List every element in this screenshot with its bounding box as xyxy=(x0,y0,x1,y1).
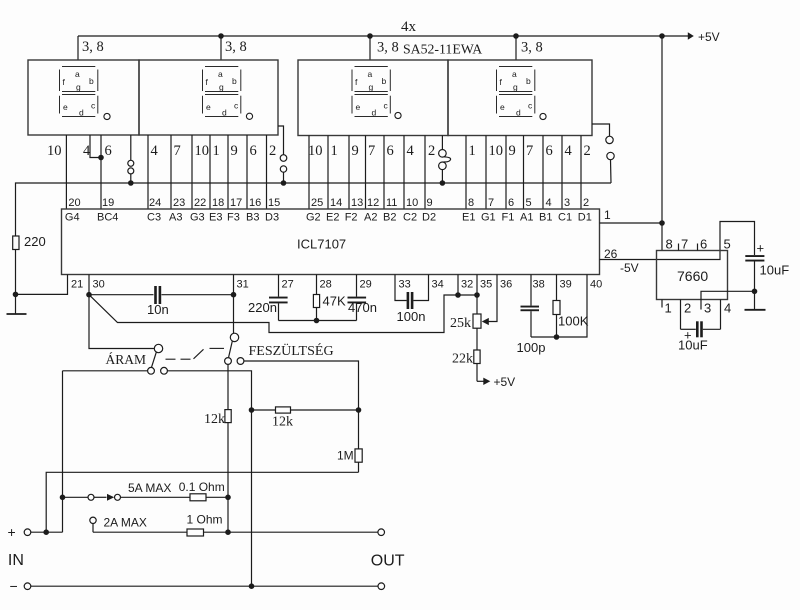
display pin labels serif xyxy=(47,143,591,159)
wire IC pin35 stub xyxy=(476,275,478,296)
svg-text:ÁRAM: ÁRAM xyxy=(106,352,147,367)
wire DIS4 pin1 to IC pin8 xyxy=(465,136,467,210)
svg-text:5: 5 xyxy=(724,237,731,252)
wire 2A row xyxy=(93,531,187,533)
svg-text:B1: B1 xyxy=(539,212,552,224)
svg-text:2: 2 xyxy=(269,143,276,159)
wire +5V top rail xyxy=(78,35,689,37)
wire sense line to input xyxy=(46,472,358,532)
wire drop to display DIS3 pins 3,8 xyxy=(369,36,371,60)
svg-text:0.1 Ohm: 0.1 Ohm xyxy=(179,480,225,494)
node oscillator tie xyxy=(554,334,560,340)
svg-text:+: + xyxy=(684,328,692,343)
svg-text:470n: 470n xyxy=(348,300,377,315)
wire IC pin31 down to switch pole xyxy=(233,275,235,334)
ground GND1 xyxy=(7,313,27,315)
wire integrator common tie xyxy=(279,320,357,322)
svg-text:10uF: 10uF xyxy=(760,263,790,278)
pin tick U2 pin6 xyxy=(697,244,699,251)
switch SW1a ARAM pole xyxy=(154,344,162,352)
svg-text:8: 8 xyxy=(468,197,474,209)
node top-rail junction box4 xyxy=(513,33,519,39)
wire DIS4 pin6 to IC pin4 xyxy=(542,136,544,210)
IC pin number labels bottom row xyxy=(71,279,602,291)
svg-text:6: 6 xyxy=(546,143,553,159)
svg-text:7: 7 xyxy=(174,143,181,159)
wire U2 pin3 to ground node xyxy=(701,291,755,309)
svg-text:7: 7 xyxy=(681,237,688,252)
svg-text:40: 40 xyxy=(590,279,602,291)
jumper J4 decimal point of DIS4 xyxy=(592,124,614,183)
svg-text:4: 4 xyxy=(407,143,415,159)
wire DIS3 pin1 to IC pin14 xyxy=(327,136,329,210)
node pin31 xyxy=(231,292,237,298)
contact SW1a right xyxy=(161,367,168,374)
7660 labels xyxy=(665,237,732,316)
node -5V filter xyxy=(752,289,758,295)
display DIS4 7-segment glyph xyxy=(497,67,547,120)
node pin1 +5V xyxy=(659,220,665,226)
svg-text:1: 1 xyxy=(604,208,611,222)
svg-text:23: 23 xyxy=(173,197,185,209)
node bottom rail xyxy=(249,583,255,589)
resistor R3 22k xyxy=(474,350,484,381)
wire DIS3 pin6 to IC pin11 xyxy=(383,136,385,210)
svg-text:OUT: OUT xyxy=(371,553,405,570)
svg-text:29: 29 xyxy=(360,279,372,291)
svg-text:36: 36 xyxy=(500,279,512,291)
wire 5A jack to plug xyxy=(94,496,107,498)
+5V arrow at 22k xyxy=(483,378,490,385)
wiper arrow of P1 xyxy=(482,318,489,325)
svg-text:27: 27 xyxy=(282,279,294,291)
wire IC pin27 stub xyxy=(278,275,280,297)
ground GND2 xyxy=(745,309,766,311)
svg-text:E1: E1 xyxy=(462,212,475,224)
svg-text:A3: A3 xyxy=(169,212,182,224)
wire ARAM left contact to input sense xyxy=(63,370,148,372)
pin tick U2 pin7 xyxy=(678,244,680,251)
wire DIS4 pin10 to IC pin7 xyxy=(485,136,487,210)
svg-text:5: 5 xyxy=(526,197,532,209)
node pin30 xyxy=(86,292,92,298)
IC pin number labels top row xyxy=(68,197,589,209)
wire 2A jack drop xyxy=(92,524,94,533)
terminal OUT+ xyxy=(378,529,385,536)
svg-text:26: 26 xyxy=(604,247,618,261)
svg-text:9: 9 xyxy=(509,143,516,159)
svg-text:B2: B2 xyxy=(383,212,396,224)
jack 2A xyxy=(90,517,96,523)
svg-text:4: 4 xyxy=(546,197,552,209)
display DIS3 box xyxy=(298,60,448,136)
svg-text:3, 8: 3, 8 xyxy=(225,39,247,55)
node DIS1 pins 4-6 xyxy=(98,155,104,161)
display DIS1 7-segment glyph xyxy=(60,67,111,120)
wire IC pin36 to wiper arrow xyxy=(489,275,498,322)
svg-text:7660: 7660 xyxy=(677,268,708,284)
svg-text:C3: C3 xyxy=(147,212,161,224)
svg-text:BC4: BC4 xyxy=(97,212,118,224)
node DP line J1 xyxy=(128,180,134,186)
node top-rail junction box2 xyxy=(218,33,224,39)
wire IC pin29 stub xyxy=(356,275,358,297)
contact SW1a left xyxy=(148,367,155,374)
node DP line J3 xyxy=(440,180,446,186)
node pin32 xyxy=(455,292,461,298)
wire IC pin38 stub xyxy=(530,275,532,306)
svg-text:33: 33 xyxy=(399,279,411,291)
wire input sense vertical xyxy=(62,371,64,532)
svg-text:11: 11 xyxy=(386,197,397,209)
svg-text:E2: E2 xyxy=(326,212,339,224)
node shunt junction 5A xyxy=(225,495,231,501)
wire IC pin40 down and oscillator tie xyxy=(531,275,587,338)
svg-text:6: 6 xyxy=(250,143,257,159)
svg-text:14: 14 xyxy=(330,197,342,209)
svg-text:3, 8: 3, 8 xyxy=(521,40,543,56)
svg-text:9: 9 xyxy=(427,197,433,209)
wire DIS4 pin9 to IC pin6 xyxy=(505,136,507,210)
svg-text:1: 1 xyxy=(469,143,476,159)
svg-text:7: 7 xyxy=(368,143,375,159)
svg-text:6: 6 xyxy=(700,237,707,252)
svg-text:7: 7 xyxy=(526,143,533,159)
capacitor C6 10uF charge pump xyxy=(681,321,721,337)
wire 220 to ground xyxy=(15,250,17,315)
wire DIS1 pin6 to IC pin19 xyxy=(100,135,102,209)
wire DIS4 pin2 to IC pin2 xyxy=(580,136,582,210)
svg-text:10: 10 xyxy=(195,143,210,159)
svg-text:19: 19 xyxy=(102,197,114,209)
wire DIS4 pin4 to IC pin3 xyxy=(561,136,563,210)
wire FESZ left contact to 12k xyxy=(227,364,229,409)
svg-text:1 Ohm: 1 Ohm xyxy=(187,513,223,527)
resistor R5 12k vertical xyxy=(225,410,231,533)
jack 5A right xyxy=(115,494,121,500)
wire DIS2 pin7 to IC pin23 xyxy=(170,135,172,209)
wire IC pin32 stub xyxy=(457,275,459,296)
display DIS2 box xyxy=(139,60,278,135)
svg-text:+: + xyxy=(8,524,16,540)
svg-text:3, 8: 3, 8 xyxy=(82,39,104,55)
svg-text:10: 10 xyxy=(47,143,62,159)
svg-text:G2: G2 xyxy=(306,212,321,224)
svg-text:1: 1 xyxy=(331,143,338,159)
svg-text:ICL7107: ICL7107 xyxy=(297,237,346,252)
jack 5A left xyxy=(88,494,94,500)
plug arrow 5A xyxy=(107,494,114,501)
node ground junction xyxy=(13,292,19,298)
pin tick U2 pin1 xyxy=(661,300,663,308)
wire bottom rail xyxy=(31,585,378,587)
svg-text:16: 16 xyxy=(249,197,261,209)
svg-text:100n: 100n xyxy=(397,309,426,324)
svg-text:31: 31 xyxy=(237,279,249,291)
svg-text:15: 15 xyxy=(268,197,280,209)
node IN+ branch xyxy=(43,529,49,535)
svg-text:35: 35 xyxy=(480,279,492,291)
display 3,8 labels xyxy=(82,19,543,57)
svg-text:C2: C2 xyxy=(403,212,417,224)
wire drop to display DIS1 pins 3,8 xyxy=(77,36,79,60)
svg-text:2: 2 xyxy=(584,143,591,159)
node 1M top xyxy=(356,407,362,413)
svg-text:9: 9 xyxy=(231,143,238,159)
svg-text:25: 25 xyxy=(311,197,323,209)
resistor R8 0.1 Ohm shunt xyxy=(190,494,228,501)
svg-text:1: 1 xyxy=(665,301,672,316)
svg-text:F3: F3 xyxy=(227,212,240,224)
svg-text:34: 34 xyxy=(432,279,444,291)
display DIS4 box xyxy=(448,60,592,136)
svg-text:4: 4 xyxy=(151,143,159,159)
svg-text:20: 20 xyxy=(68,197,80,209)
wire 5A row xyxy=(63,496,89,498)
wire DIS1 pin4 join xyxy=(90,135,101,158)
capacitor C1 10n xyxy=(89,286,234,304)
wire ARAM right contact to divider xyxy=(167,371,251,586)
jumper J3 decimal point of DIS3 xyxy=(439,136,451,184)
svg-text:8: 8 xyxy=(666,237,673,252)
svg-text:4: 4 xyxy=(83,143,91,159)
svg-text:+5V: +5V xyxy=(494,375,516,389)
svg-text:2: 2 xyxy=(583,197,589,209)
svg-text:3: 3 xyxy=(704,301,711,316)
svg-text:21: 21 xyxy=(71,279,83,291)
svg-text:22: 22 xyxy=(194,197,206,209)
wire DIS3 pin2 to IC pin9 xyxy=(424,136,426,210)
wire DIS3 pin9 to IC pin13 xyxy=(348,136,350,210)
svg-text:SA52-11EWA: SA52-11EWA xyxy=(403,42,482,57)
wire IC pin39 stub xyxy=(556,275,558,301)
svg-text:39: 39 xyxy=(560,279,572,291)
svg-text:4x: 4x xyxy=(401,19,417,35)
svg-text:D1: D1 xyxy=(578,212,592,224)
svg-text:100p: 100p xyxy=(517,340,546,355)
svg-text:28: 28 xyxy=(320,279,332,291)
wire drop to display DIS4 pins 3,8 xyxy=(515,36,517,60)
svg-text:17: 17 xyxy=(230,197,242,209)
IC segment name labels xyxy=(65,212,592,224)
svg-text:220: 220 xyxy=(24,234,46,249)
wire +5V branch down to 7660 pin 8 xyxy=(661,36,663,251)
wire DIS2 pin4 to IC pin24 xyxy=(147,135,149,209)
svg-text:F1: F1 xyxy=(502,212,515,224)
wire IC pin21 to ground node xyxy=(16,275,68,295)
node top-rail junction box3 xyxy=(367,33,373,39)
svg-text:100K: 100K xyxy=(558,314,589,329)
svg-text:10: 10 xyxy=(489,143,504,159)
svg-text:E3: E3 xyxy=(209,212,222,224)
svg-text:1: 1 xyxy=(213,143,220,159)
svg-text:13: 13 xyxy=(351,197,363,209)
resistor R4 100K xyxy=(553,301,560,338)
potentiometer P1 25k xyxy=(473,295,481,350)
wire decimal-point common line xyxy=(16,183,612,236)
linkage dashed SW1-SW2 xyxy=(166,348,225,359)
node pin35 xyxy=(474,292,480,298)
node shunt junction 2A xyxy=(225,529,231,535)
svg-text:-5V: -5V xyxy=(620,261,639,275)
svg-text:10uF: 10uF xyxy=(678,338,708,353)
svg-text:12k: 12k xyxy=(204,412,225,427)
wire IC pin30 stub xyxy=(88,275,90,295)
svg-text:32: 32 xyxy=(461,279,473,291)
wire IC pin34 stub xyxy=(413,275,428,301)
wire DIS2 pin1 to IC pin18 xyxy=(209,135,211,209)
op-amp U1 ICL7107 box xyxy=(62,209,600,275)
wire IN-LO net pin30 to pins 32-35 xyxy=(89,295,477,333)
svg-text:A1: A1 xyxy=(520,212,533,224)
jumper J2 decimal point of DIS2 xyxy=(278,126,287,183)
resistor R1 220 xyxy=(13,236,19,250)
capacitor C4 100n xyxy=(407,292,414,309)
svg-text:24: 24 xyxy=(149,197,161,209)
svg-text:C1: C1 xyxy=(558,212,572,224)
svg-text:G4: G4 xyxy=(65,212,80,224)
resistor R9 1 Ohm shunt xyxy=(187,529,378,536)
svg-text:12k: 12k xyxy=(272,415,293,430)
wire DIS2 pin2 to IC pin15 xyxy=(266,135,268,209)
svg-text:9: 9 xyxy=(352,143,359,159)
svg-text:2: 2 xyxy=(428,143,435,159)
svg-text:10: 10 xyxy=(406,197,418,209)
wire DIS2 pin10 to IC pin22 xyxy=(191,135,193,209)
capacitor C7 10uF output xyxy=(745,255,764,310)
node 5A row tap xyxy=(60,495,66,501)
wire DIS1 pin10 to IC pin20 xyxy=(65,135,67,209)
+5V arrow xyxy=(688,32,694,40)
svg-text:10n: 10n xyxy=(147,302,169,317)
terminal OUT- xyxy=(378,583,385,590)
wire IC pin28 stub xyxy=(316,275,318,295)
wire DIS3 pin4 to IC pin10 xyxy=(403,136,405,210)
svg-text:F2: F2 xyxy=(345,212,358,224)
lever SW1b xyxy=(229,341,233,357)
capacitor C3 470n xyxy=(348,297,367,321)
contact SW1b left xyxy=(225,358,232,365)
svg-text:D2: D2 xyxy=(422,212,436,224)
display DIS2 7-segment glyph xyxy=(203,67,253,120)
wire IC pin1 to +5V branch xyxy=(600,222,663,224)
node divider top xyxy=(249,407,255,413)
svg-text:4: 4 xyxy=(724,301,731,316)
wire to shunt 0.1 Ohm xyxy=(121,496,191,498)
IC U2 7660 box xyxy=(657,251,728,300)
svg-text:3, 8: 3, 8 xyxy=(377,40,399,56)
node DP line J2 xyxy=(281,180,287,186)
resistor R6 12k horizontal xyxy=(252,407,359,413)
wire U2 pin4 to capacitor xyxy=(720,300,722,330)
resistor R2 47K xyxy=(313,295,319,321)
wire IC pin26 -5V to 7660 pin5 xyxy=(600,222,755,260)
svg-text:2A MAX: 2A MAX xyxy=(104,516,147,530)
svg-text:22k: 22k xyxy=(452,352,473,367)
wire IN+ xyxy=(31,531,63,533)
node top-rail junction +5V branch xyxy=(659,33,665,39)
svg-text:4: 4 xyxy=(565,143,573,159)
svg-text:6: 6 xyxy=(105,143,112,159)
svg-text:47K: 47K xyxy=(323,294,346,309)
svg-text:+5V: +5V xyxy=(698,30,720,44)
svg-text:+: + xyxy=(757,241,765,256)
svg-text:G1: G1 xyxy=(481,212,496,224)
svg-text:B3: B3 xyxy=(246,212,259,224)
wire FESZ right contact to 1M node xyxy=(244,361,359,449)
capacitor C5 100p xyxy=(521,306,540,337)
svg-text:220n: 220n xyxy=(248,300,277,315)
wire DIS4 pin7 to IC pin5 xyxy=(523,136,525,210)
svg-text:6: 6 xyxy=(508,197,514,209)
svg-text:12: 12 xyxy=(367,197,379,209)
svg-text:6: 6 xyxy=(387,143,394,159)
wire DIS2 pin6 to IC pin16 xyxy=(246,135,248,209)
resistor R7 1M xyxy=(355,449,362,472)
wire DIS3 pin10 to IC pin25 xyxy=(308,136,310,210)
svg-text:7: 7 xyxy=(488,197,494,209)
terminal IN+ xyxy=(24,529,31,536)
capacitor C2 220n xyxy=(269,297,288,321)
svg-text:2: 2 xyxy=(684,301,691,316)
node integrator tie xyxy=(314,318,320,324)
switch SW1b FESZULTSEG pole xyxy=(230,333,238,341)
svg-text:38: 38 xyxy=(533,279,545,291)
svg-text:A2: A2 xyxy=(364,212,377,224)
svg-text:1M: 1M xyxy=(337,449,354,463)
contact SW1b right xyxy=(237,358,244,365)
wire IC pin33 stub xyxy=(395,275,407,301)
display DIS3 7-segment glyph xyxy=(352,67,401,119)
svg-text:10: 10 xyxy=(308,143,323,159)
svg-text:3: 3 xyxy=(564,197,570,209)
svg-text:25k: 25k xyxy=(450,316,471,331)
terminal IN- xyxy=(24,583,31,590)
svg-text:5A MAX: 5A MAX xyxy=(128,481,171,495)
wire DIS2 pin9 to IC pin17 xyxy=(227,135,229,209)
svg-text:30: 30 xyxy=(93,279,105,291)
svg-text:18: 18 xyxy=(212,197,224,209)
svg-text:−: − xyxy=(10,578,18,594)
svg-text:D3: D3 xyxy=(265,212,279,224)
display DIS1 box xyxy=(28,60,139,135)
svg-text:IN: IN xyxy=(8,552,24,569)
jumper J1 decimal point of DIS1 xyxy=(128,135,134,183)
lever SW1a xyxy=(152,352,157,367)
svg-text:FESZÜLTSÉG: FESZÜLTSÉG xyxy=(249,342,334,359)
wire drop to display DIS2 pins 3,8 xyxy=(220,36,222,60)
wire pin30 node to ARAM pole xyxy=(89,295,154,349)
wire U2 pin2 to capacitor xyxy=(680,300,682,330)
wire DIS3 pin7 to IC pin12 xyxy=(365,136,367,210)
svg-text:G3: G3 xyxy=(190,212,205,224)
